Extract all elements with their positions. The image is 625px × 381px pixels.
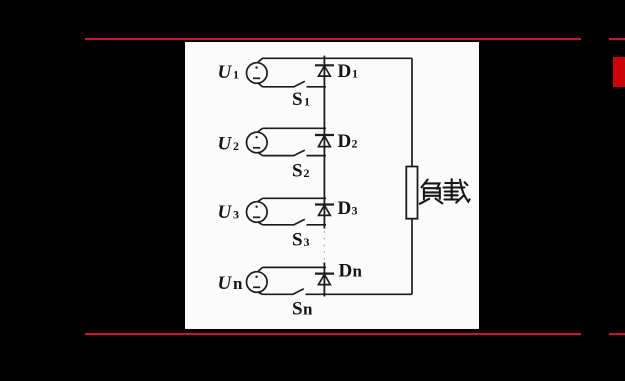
switch Sn blade: [293, 289, 304, 295]
wire U1 to switch S1: [263, 86, 295, 88]
svg-text:1: 1: [304, 95, 310, 109]
bottom red rule right segment: [609, 333, 625, 335]
svg-text:n: n: [353, 261, 363, 280]
svg-text:3: 3: [233, 208, 239, 222]
svg-text:n: n: [303, 300, 313, 319]
white scan panel: [185, 42, 479, 329]
red block top-right: [613, 57, 625, 87]
wire U3 bottom link: [258, 222, 263, 225]
负: [422, 180, 428, 188]
svg-text:D: D: [338, 131, 352, 152]
wire S1 to bus: [307, 86, 327, 88]
wire U3 top to bus: [263, 197, 327, 199]
switch S1 blade: [294, 81, 305, 87]
svg-text:D: D: [338, 61, 352, 82]
load resistor RL: [406, 167, 417, 219]
svg-text:D: D: [339, 260, 353, 281]
wire U1 top link: [258, 58, 263, 62]
top red rule: [85, 38, 581, 40]
svg-text:U: U: [218, 62, 233, 83]
wire Un top link: [258, 267, 263, 272]
wire top rail node A: [262, 57, 412, 59]
bottom red rule: [85, 333, 581, 335]
svg-text:S: S: [292, 89, 303, 110]
wire U3 to switch S3: [263, 224, 295, 226]
svg-text:S: S: [292, 160, 303, 181]
vertical bus upper segment: [323, 56, 325, 229]
diode D2: [315, 135, 334, 147]
voltage source U1: [246, 63, 267, 84]
svg-text:U: U: [218, 202, 233, 223]
svg-text:3: 3: [352, 204, 358, 218]
载: [445, 182, 458, 184]
diode Dn: [315, 274, 334, 285]
svg-text:3: 3: [304, 235, 310, 249]
wire U2 bottom link: [258, 152, 263, 155]
svg-text:D: D: [338, 198, 352, 219]
svg-text:2: 2: [233, 139, 239, 153]
wire Un to switch Sn: [263, 293, 294, 295]
top red rule right segment: [609, 38, 625, 40]
vertical bus lower segment: [323, 263, 325, 297]
svg-text:n: n: [233, 274, 243, 293]
wire right branch lower: [411, 219, 413, 295]
label 负载 (load): [420, 179, 470, 204]
wire U2 top to bus: [263, 127, 327, 129]
diode D1: [315, 65, 334, 76]
wire U2 top link: [258, 128, 263, 132]
svg-text:1: 1: [352, 66, 358, 80]
wire U3 top link: [258, 198, 263, 202]
wire U2 to switch S2: [263, 155, 295, 157]
vertical bus dotted continuation: [323, 231, 325, 261]
wire right branch upper: [411, 58, 413, 166]
wire S3 to bus: [307, 224, 327, 226]
svg-text:1: 1: [233, 68, 239, 82]
voltage source Un: [246, 272, 267, 293]
svg-text:S: S: [292, 299, 303, 320]
svg-text:2: 2: [304, 166, 310, 180]
svg-text:2: 2: [352, 137, 358, 151]
svg-text:U: U: [218, 133, 233, 154]
voltage source U3: [246, 202, 267, 223]
wire Sn to bottom rail: [306, 293, 327, 295]
wire Un bottom link: [258, 292, 263, 294]
wire Un top to bus: [263, 266, 327, 268]
voltage source U2: [246, 132, 267, 153]
svg-text:U: U: [218, 273, 233, 294]
wire bottom rail: [325, 293, 412, 295]
diode D3: [315, 205, 334, 216]
switch S3 blade: [294, 219, 305, 225]
wire S2 to bus: [307, 155, 327, 157]
wire U1 bottom link: [258, 83, 263, 87]
switch S2 blade: [294, 150, 305, 156]
svg-text:S: S: [292, 230, 303, 251]
